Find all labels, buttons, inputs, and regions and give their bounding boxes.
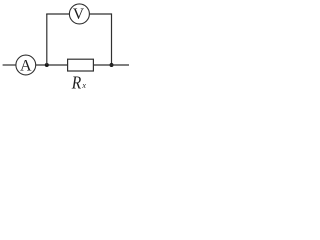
wire: ammeter to resistor <box>36 64 68 66</box>
node: left junction dot <box>45 63 49 67</box>
wire: voltmeter to top right <box>89 13 111 15</box>
ammeter A1 circle <box>16 55 36 75</box>
resistor Rx box <box>68 59 94 71</box>
wire: left vertical branch <box>46 14 48 65</box>
node: right junction dot <box>110 63 114 67</box>
voltmeter V1 circle <box>69 4 89 24</box>
svg-text:A: A <box>20 58 32 75</box>
wire: right vertical branch <box>111 13 113 65</box>
svg-text:R: R <box>71 72 81 92</box>
wire: top left to voltmeter <box>46 13 69 15</box>
wire: left stub to ammeter <box>3 64 16 66</box>
svg-text:x: x <box>81 81 86 90</box>
wire: resistor to right end <box>93 64 129 66</box>
svg-text:V: V <box>73 6 85 23</box>
